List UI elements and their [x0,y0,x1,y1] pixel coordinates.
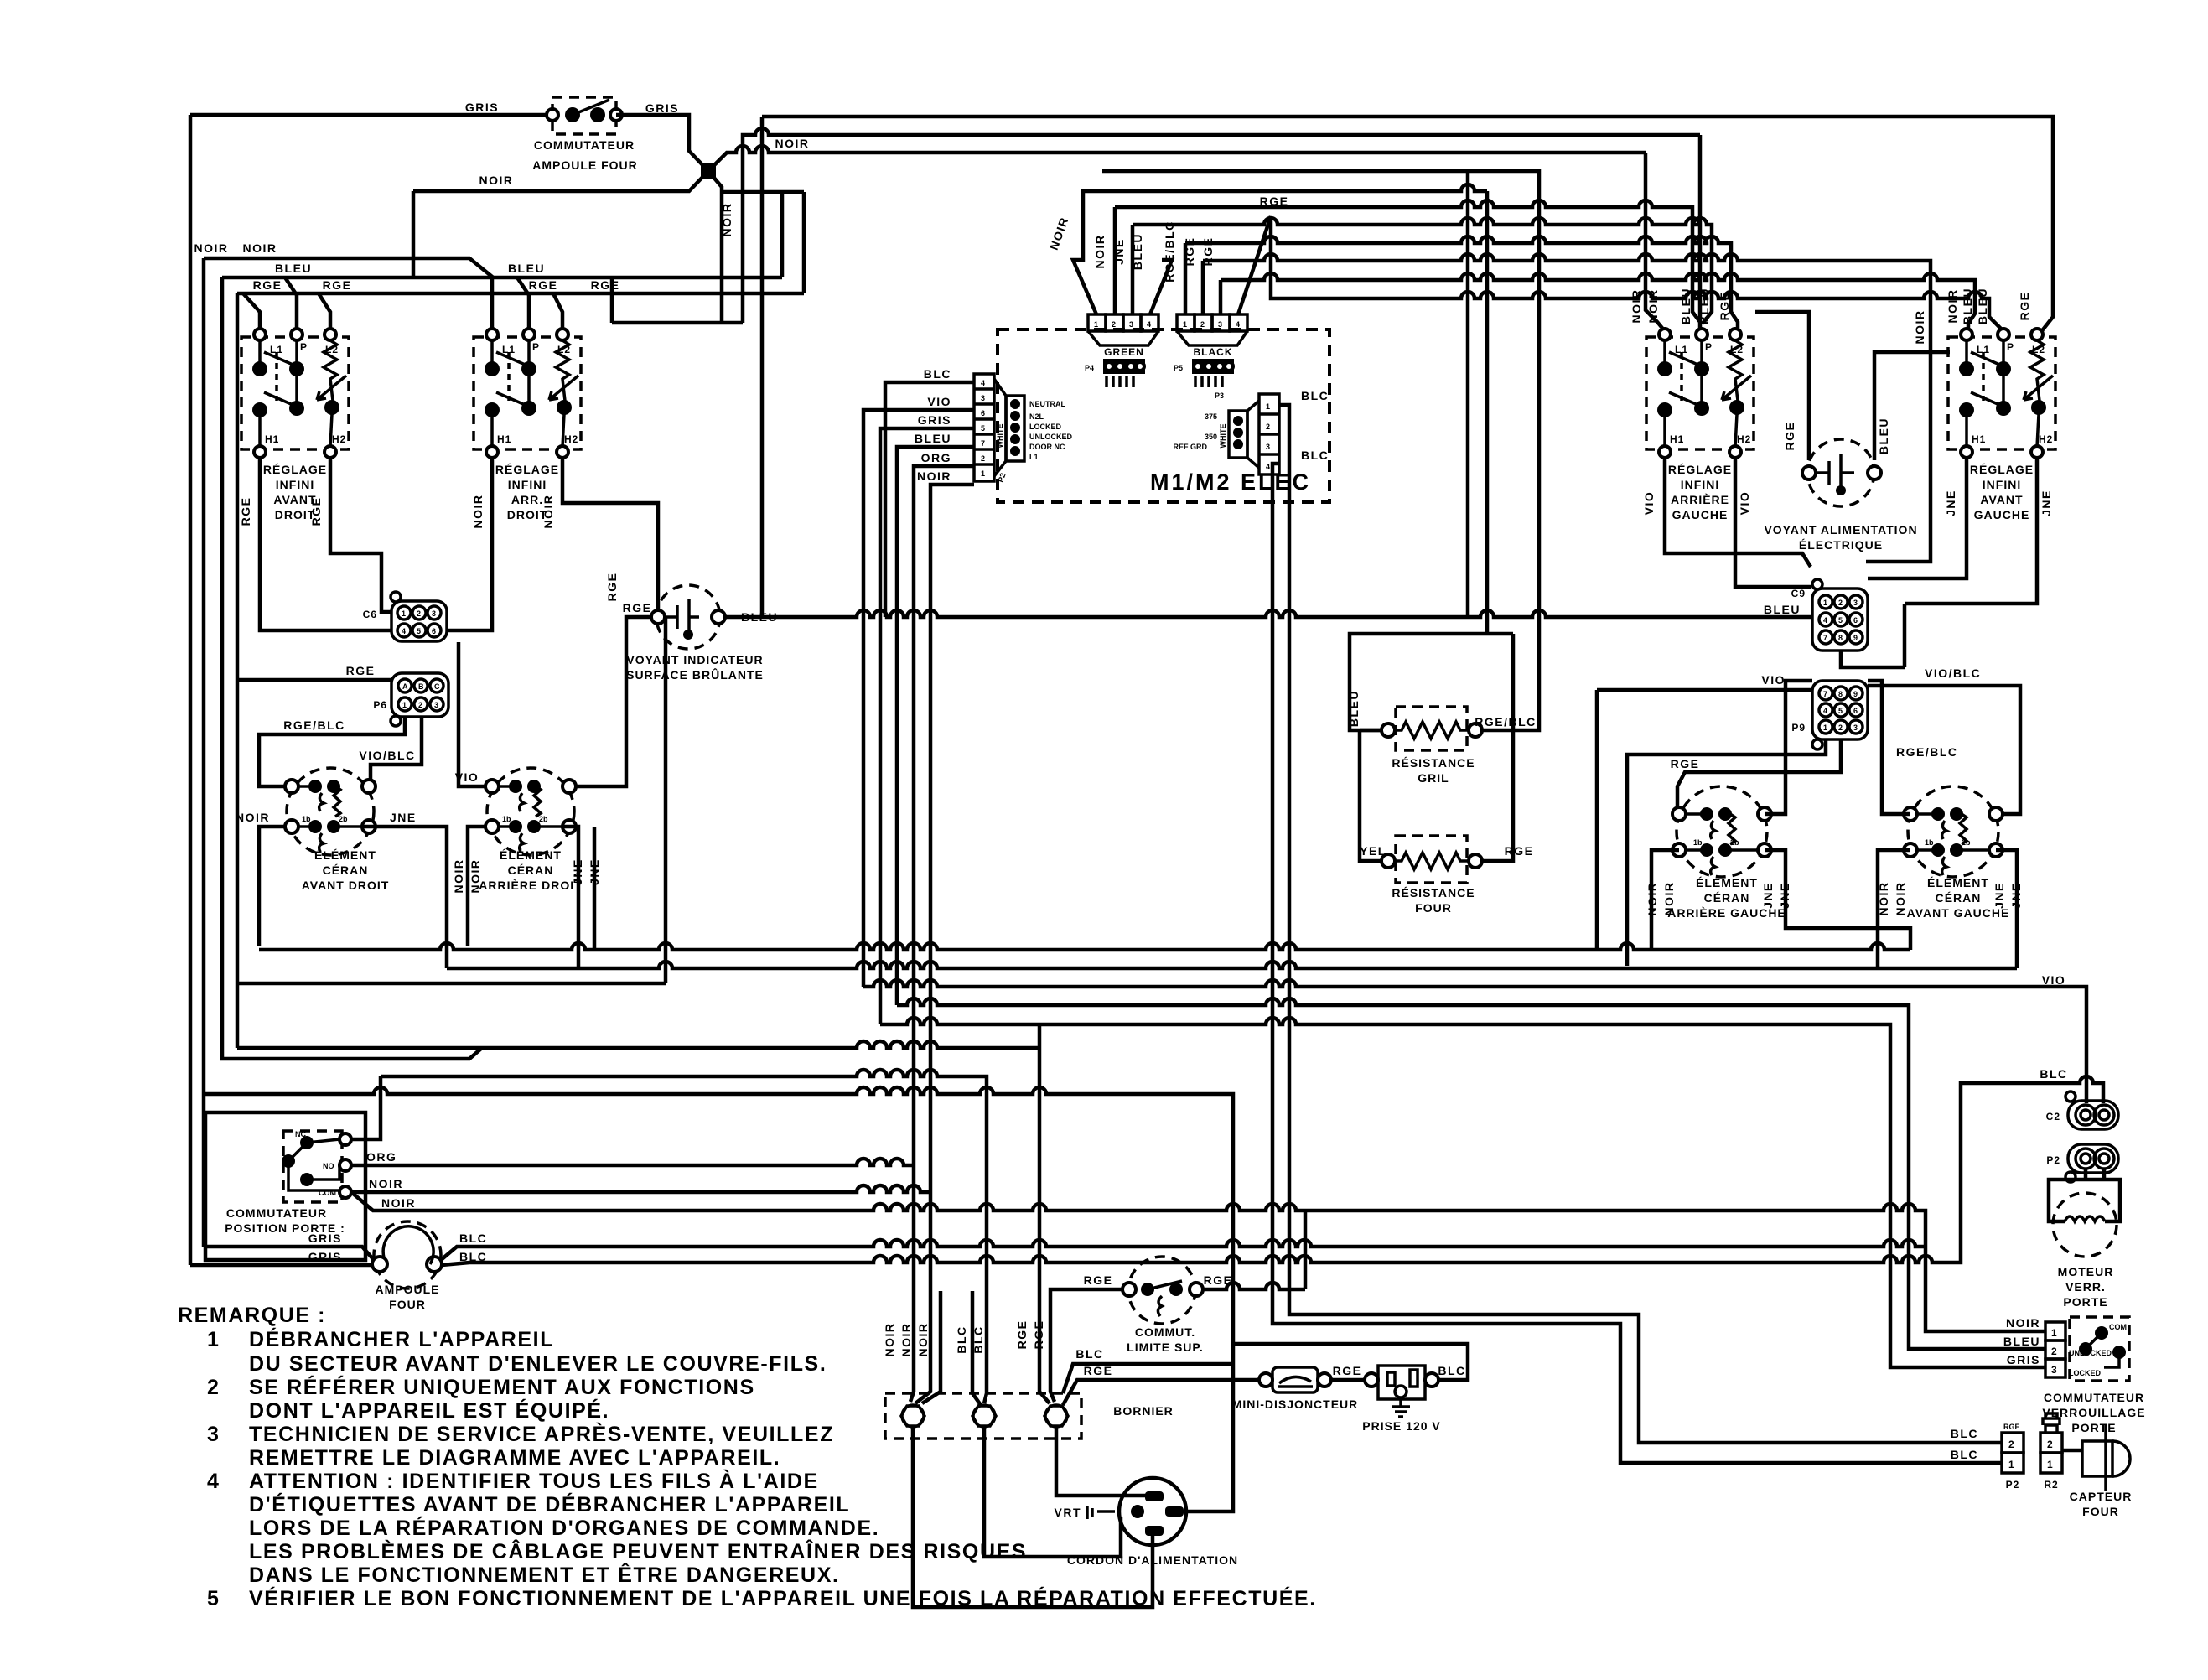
wire vio elem2 [459,642,490,786]
svg-text:P3: P3 [1215,391,1224,400]
connector C6 [363,592,447,641]
svg-text:NEUTRAL: NEUTRAL [1029,400,1065,408]
svg-text:LOCKED: LOCKED [2069,1369,2102,1377]
svg-text:1: 1 [2008,1459,2015,1470]
svg-text:1: 1 [2047,1459,2054,1470]
svg-text:5: 5 [1838,707,1843,715]
svg-text:BLC: BLC [1075,1347,1103,1361]
svg-text:NOIR: NOIR [542,495,555,529]
svg-text:PORTE: PORTE [2071,1421,2116,1434]
svg-text:4: 4 [1147,320,1151,329]
svg-text:RGE: RGE [323,278,352,292]
wire X down-right vertical noir [708,171,804,323]
svg-text:5: 5 [981,424,985,433]
svg-text:2: 2 [981,454,985,463]
svg-text:BLC: BLC [924,367,951,381]
wire bornier hex1 third noir + hex2 second blc stubs [922,1291,981,1405]
svg-text:1b: 1b [302,815,311,823]
svg-text:ÉLÉMENT: ÉLÉMENT [1696,876,1758,889]
svg-text:ARRIÈRE DROIT: ARRIÈRE DROIT [479,879,582,892]
svg-text:2: 2 [418,701,422,709]
svg-text:VIO: VIO [1738,491,1751,516]
svg-text:3: 3 [207,1423,220,1446]
wire bus y247 [1115,200,1700,331]
svg-text:MOTEUR: MOTEUR [2058,1265,2114,1278]
svg-text:375: 375 [1205,412,1217,421]
connector GREEN [1085,314,1158,387]
svg-text:MINI-DISJONCTEUR: MINI-DISJONCTEUR [1232,1397,1359,1411]
svg-text:NOIR: NOIR [1946,289,1959,324]
wire top bus rge [762,117,2053,333]
svg-text:DONT L'APPAREIL EST ÉQUIPÉ.: DONT L'APPAREIL EST ÉQUIPÉ. [249,1398,609,1423]
svg-text:NOIR: NOIR [381,1196,416,1210]
svg-text:6: 6 [432,627,436,635]
svg-text:NOIR: NOIR [452,859,465,894]
svg-text:NOIR: NOIR [369,1177,403,1190]
svg-text:2b: 2b [1962,838,1971,847]
svg-text:1: 1 [1266,402,1270,411]
wire voyant alim leads [1755,312,1950,460]
svg-text:COMMUTATEUR: COMMUTATEUR [2044,1391,2144,1404]
commutateur ampoule four [465,97,679,172]
svg-text:BLEU: BLEU [1976,288,1989,324]
svg-text:9: 9 [1853,690,1858,698]
svg-text:NC: NC [295,1130,306,1138]
wire bus y334 [1221,273,1975,331]
svg-text:P: P [532,341,540,353]
svg-text:NOIR: NOIR [1646,289,1660,324]
wire box1 H2 down to C6 [330,458,391,612]
svg-text:RGE: RGE [2003,1423,2020,1431]
svg-text:P4: P4 [1085,364,1094,372]
svg-text:2: 2 [1266,423,1270,431]
svg-text:BLEU: BLEU [1131,233,1144,270]
wire bus 1180 vio [863,980,2086,1103]
wire rge/blc elem1 [259,718,405,786]
svg-text:JNE: JNE [390,811,417,824]
svg-text:RGE: RGE [529,278,558,292]
svg-text:350: 350 [1205,433,1217,441]
connector P9 [1791,681,1868,749]
svg-text:ARRIÈRE: ARRIÈRE [1671,493,1729,506]
svg-text:NO: NO [323,1162,334,1170]
svg-text:2: 2 [207,1376,220,1399]
svg-text:NOIR: NOIR [720,203,733,237]
wire gauche boxes to C9 [1665,458,1811,567]
wire limite sup leads [1050,1283,1305,1402]
svg-text:P: P [1705,341,1713,353]
svg-text:RGE: RGE [1505,844,1534,858]
svg-text:1: 1 [207,1328,220,1351]
svg-text:RGE/BLC: RGE/BLC [1475,715,1537,729]
svg-text:1: 1 [402,609,406,618]
svg-text:3: 3 [434,701,438,709]
connector C9 [1764,579,1868,651]
wire elem gauche bottoms [1651,850,1679,950]
svg-text:3: 3 [1266,443,1270,451]
svg-text:BLEU: BLEU [2003,1335,2040,1348]
svg-text:FOUR: FOUR [2082,1505,2119,1518]
svg-text:RGE: RGE [1671,757,1700,770]
svg-text:4: 4 [207,1470,220,1493]
svg-text:BLEU: BLEU [1679,288,1692,324]
svg-text:3: 3 [2051,1364,2058,1376]
svg-text:ARR.: ARR. [511,493,543,506]
svg-text:NOIR: NOIR [1894,882,1907,916]
svg-text:LIMITE SUP.: LIMITE SUP. [1127,1340,1204,1354]
svg-text:DÉBRANCHER L'APPAREIL: DÉBRANCHER L'APPAREIL [249,1327,554,1351]
wire bus 1129 [259,943,1910,950]
svg-text:BLEU: BLEU [508,262,545,275]
svg-text:H2: H2 [2039,433,2053,445]
svg-text:BLACK: BLACK [1194,346,1233,358]
svg-text:2b: 2b [539,815,548,823]
svg-text:BLEU: BLEU [1877,417,1890,454]
svg-text:VIO/BLC: VIO/BLC [1925,666,1981,680]
svg-text:FOUR: FOUR [1415,901,1452,915]
svg-text:VRT: VRT [1055,1506,1082,1519]
svg-text:4: 4 [1823,616,1827,625]
svg-text:NOIR: NOIR [899,1323,913,1357]
svg-text:C6: C6 [363,609,377,620]
wire line1173 left [237,617,666,983]
svg-text:YEL: YEL [1360,844,1386,858]
svg-text:COMMUT.: COMMUT. [1135,1325,1195,1339]
svg-text:COMMUTATEUR: COMMUTATEUR [534,138,635,152]
svg-text:2: 2 [1200,320,1205,329]
wire bus y268 [1133,218,1712,324]
wire noir1 [351,1185,930,1192]
svg-text:9: 9 [1853,634,1858,642]
svg-text:RGE: RGE [309,497,323,526]
wire bus 1151 [447,962,2017,968]
wire bus 1284 blc [381,1070,987,1403]
svg-text:3: 3 [1853,599,1858,607]
connector P2 M1M2 left [974,374,1072,484]
svg-text:RGE: RGE [1718,292,1731,321]
wire v2028 [1698,135,1703,322]
svg-text:1b: 1b [502,815,511,823]
svg-text:FOUR: FOUR [389,1298,426,1311]
svg-text:ÉLÉMENT: ÉLÉMENT [1927,876,1989,889]
svg-text:RGE: RGE [605,573,619,602]
wires BLACK top [1185,216,1271,314]
svg-text:1: 1 [1823,723,1827,732]
wire bus y356 [1271,216,2001,331]
svg-text:VIO: VIO [2042,973,2066,987]
wire bus 1250 [237,1024,1050,1403]
svg-text:BORNIER: BORNIER [1113,1404,1174,1418]
wire bleu right segment to second box [793,276,797,280]
svg-text:1: 1 [981,469,985,478]
svg-text:6: 6 [1853,707,1858,715]
svg-text:H1: H1 [265,433,279,445]
svg-text:JNE: JNE [2040,490,2053,516]
wire bus y311 [1203,254,1931,562]
svg-text:RGE: RGE [1084,1273,1113,1287]
svg-text:NOIR: NOIR [236,811,270,824]
svg-text:NOIR: NOIR [243,241,277,255]
svg-text:DANS LE FONCTIONNEMENT ET ÊTRE: DANS LE FONCTIONNEMENT ET ÊTRE DANGEREUX… [249,1562,840,1587]
svg-text:NOIR: NOIR [469,859,482,894]
svg-text:RÉSISTANCE: RÉSISTANCE [1392,756,1475,770]
svg-text:LOCKED: LOCKED [1029,423,1062,431]
wire voyant bleu long [725,610,1812,617]
svg-text:8: 8 [1838,634,1843,642]
svg-text:C9: C9 [1791,588,1806,599]
connector P6 [373,673,448,726]
svg-text:BLC: BLC [1951,1448,1978,1461]
wire noir bus y308 [204,258,492,1247]
svg-text:BLC: BLC [955,1325,968,1353]
svg-text:P9: P9 [1791,722,1806,734]
svg-text:5: 5 [417,627,421,635]
svg-text:GRIS: GRIS [645,101,679,115]
svg-text:P6: P6 [373,699,387,711]
svg-text:GRIS: GRIS [308,1231,342,1245]
wire gris to X [616,115,708,171]
svg-text:REMARQUE :: REMARQUE : [178,1304,326,1327]
wire noir v1963 diag [1646,153,1665,331]
svg-text:D'ÉTIQUETTES AVANT DE DÉBRANCH: D'ÉTIQUETTES AVANT DE DÉBRANCHER L'APPAR… [249,1492,850,1517]
svg-text:RGE: RGE [1084,1364,1113,1377]
svg-text:JNE: JNE [1112,238,1126,265]
svg-text:RGE/BLC: RGE/BLC [1163,220,1176,283]
svg-text:4: 4 [402,627,406,635]
svg-text:PORTE: PORTE [2063,1295,2107,1309]
svg-text:RÉSISTANCE: RÉSISTANCE [1392,886,1475,900]
svg-text:VERR.: VERR. [2065,1280,2106,1294]
svg-text:ATTENTION : IDENTIFIER TOUS LE: ATTENTION : IDENTIFIER TOUS LES FILS À L… [249,1469,819,1493]
svg-text:2b: 2b [1730,838,1739,847]
wires below bornier to cordon [913,1427,1153,1607]
svg-text:3: 3 [1853,723,1858,732]
svg-text:1: 1 [402,701,407,709]
svg-text:2: 2 [2051,1346,2058,1357]
svg-text:CÉRAN: CÉRAN [323,863,369,877]
svg-text:L1: L1 [1029,453,1039,461]
wire nc to bus1284 [351,1076,381,1139]
svg-text:BLEU: BLEU [915,432,951,445]
svg-text:RGE: RGE [1032,1320,1045,1350]
wire cordon right pin up [1184,1364,1233,1511]
svg-text:4: 4 [1236,320,1240,329]
svg-text:AVANT DROIT: AVANT DROIT [302,879,390,892]
svg-text:COMMUTATEUR: COMMUTATEUR [226,1206,327,1220]
svg-text:GREEN: GREEN [1104,346,1144,358]
svg-text:RGE: RGE [346,664,376,677]
svg-text:2: 2 [1112,320,1116,329]
wire rge elem2 to voyant [571,617,652,786]
wire top border / gris feed [190,113,549,117]
svg-text:INFINI: INFINI [276,478,314,491]
svg-text:VOYANT ALIMENTATION: VOYANT ALIMENTATION [1764,523,1917,537]
svg-text:GRIS: GRIS [2007,1353,2040,1366]
svg-text:NOIR: NOIR [775,137,810,150]
svg-text:NOIR: NOIR [1093,235,1107,269]
wire rge bus y350 [237,293,804,1048]
svg-text:VIO: VIO [1761,673,1786,687]
svg-text:PRISE 120 V: PRISE 120 V [1362,1419,1441,1433]
svg-text:VIO: VIO [1642,491,1656,516]
svg-text:RGE: RGE [623,601,652,614]
svg-text:3: 3 [1129,320,1133,329]
svg-text:H1: H1 [497,433,511,445]
svg-text:BLC: BLC [1301,389,1329,402]
moteur verr porte [2049,1169,2120,1309]
wire elem bottoms to buses [259,827,447,968]
wire bus 1203 [897,998,2045,1349]
svg-text:M1/M2 ELEC: M1/M2 ELEC [1150,469,1311,495]
svg-text:H2: H2 [564,433,578,445]
svg-text:BLEU: BLEU [275,262,312,275]
svg-text:CAPTEUR: CAPTEUR [2070,1490,2133,1503]
wire gris wires [190,1247,374,1265]
svg-text:6: 6 [1853,616,1858,625]
wire disjoncteur to prise [1331,1378,1365,1382]
svg-text:CÉRAN: CÉRAN [1704,891,1750,905]
svg-text:RGE/BLC: RGE/BLC [283,718,345,732]
svg-text:A: A [402,682,408,691]
svg-text:VIO/BLC: VIO/BLC [359,749,415,762]
wire vio/blc elem1 [371,718,422,786]
svg-text:NOIR: NOIR [2006,1316,2040,1330]
svg-text:REMETTRE LE DIAGRAMME AVEC L'A: REMETTRE LE DIAGRAMME AVEC L'APPAREIL. [249,1446,780,1470]
svg-text:UNLOCKED: UNLOCKED [2069,1349,2112,1357]
svg-text:NOIR: NOIR [916,1323,930,1357]
svg-text:1b: 1b [1693,838,1703,847]
svg-text:JNE: JNE [1944,490,1957,516]
svg-text:WHITE: WHITE [1219,424,1227,449]
svg-text:RGE: RGE [2018,292,2031,321]
svg-text:ÉLÉMENT: ÉLÉMENT [500,848,562,862]
wire X up-right to bus [708,146,1646,171]
node X junction [701,163,716,179]
svg-text:H1: H1 [1670,433,1684,445]
wire X down-left noir [413,171,708,191]
svg-text:CORDON D'ALIMENTATION: CORDON D'ALIMENTATION [1067,1553,1238,1567]
svg-text:RGE: RGE [253,278,282,292]
svg-text:P2: P2 [2046,1154,2060,1166]
svg-text:5: 5 [1838,616,1843,625]
svg-text:7: 7 [1823,690,1827,698]
svg-text:RGE/BLC: RGE/BLC [1896,745,1958,759]
wire box2 H2 to voyant [562,458,658,611]
svg-text:1b: 1b [1925,838,1934,847]
svg-text:GRIS: GRIS [308,1250,342,1263]
svg-text:JNE: JNE [1993,882,2006,909]
svg-text:2: 2 [1838,723,1843,732]
svg-text:GAUCHE: GAUCHE [1974,508,2030,521]
svg-text:SE RÉFÉRER UNIQUEMENT AUX FONC: SE RÉFÉRER UNIQUEMENT AUX FONCTIONS [249,1375,755,1399]
svg-text:GAUCHE: GAUCHE [1672,508,1729,521]
svg-text:RÉGLAGE: RÉGLAGE [263,463,327,476]
svg-text:INFINI: INFINI [1681,478,1719,491]
svg-text:ÉLECTRIQUE: ÉLECTRIQUE [1799,538,1883,552]
svg-text:VIO: VIO [927,395,951,408]
wire rge to P6 [237,678,391,682]
svg-text:H2: H2 [332,433,346,445]
svg-text:2: 2 [2008,1439,2015,1450]
svg-text:6: 6 [981,409,985,417]
wire v909 [760,117,765,617]
svg-text:VÉRIFIER LE BON FONCTIONNEMENT: VÉRIFIER LE BON FONCTIONNEMENT DE L'APPA… [249,1586,1317,1610]
svg-text:BLC: BLC [1438,1364,1465,1377]
svg-text:P2: P2 [2006,1479,2020,1491]
svg-text:2: 2 [2047,1439,2054,1450]
svg-text:4: 4 [1266,463,1270,471]
wire v1557 [1304,1211,1308,1289]
svg-text:COM: COM [319,1189,336,1197]
connector C2 [2046,1091,2118,1129]
svg-text:NOIR: NOIR [917,469,951,483]
svg-text:BLC: BLC [2040,1067,2067,1081]
svg-text:DOOR NC: DOOR NC [1029,443,1065,451]
svg-text:NOIR: NOIR [883,1323,896,1357]
svg-text:CÉRAN: CÉRAN [1936,891,1982,905]
svg-text:2b: 2b [339,815,348,823]
svg-text:NOIR: NOIR [1630,289,1643,324]
svg-text:RÉGLAGE: RÉGLAGE [495,463,559,476]
svg-text:2: 2 [1838,599,1843,607]
svg-text:2: 2 [417,609,421,618]
wire vio/blc from P9 [1868,686,2020,814]
svg-text:P5: P5 [1174,364,1183,372]
svg-text:NOIR: NOIR [194,241,229,255]
svg-text:GRIS: GRIS [465,101,499,114]
wire org [351,1159,914,1165]
svg-text:RÉGLAGE: RÉGLAGE [1668,463,1732,476]
svg-text:C: C [434,682,440,691]
svg-text:LES PROBLÈMES DE CÂBLAGE PEUVE: LES PROBLÈMES DE CÂBLAGE PEUVENT ENTRAÎN… [249,1538,1027,1563]
svg-text:H1: H1 [1972,433,1986,445]
svg-text:P: P [300,341,308,353]
wire left border vertical [189,115,193,1265]
svg-text:P: P [2007,341,2014,353]
svg-text:7: 7 [981,439,985,448]
svg-text:3: 3 [432,609,436,618]
svg-text:3: 3 [1218,320,1222,329]
wire box1 H1 down to C6 [260,458,391,630]
wire blc wires from ampoule [441,1240,1926,1260]
connector P2 moteur [2046,1144,2118,1182]
svg-text:ÉLÉMENT: ÉLÉMENT [314,848,376,862]
svg-text:REF GRD: REF GRD [1174,443,1208,451]
wires M1M2 right [1279,405,2002,1443]
svg-text:GRIL: GRIL [1418,771,1449,785]
wire vio to P9 [1597,690,1812,950]
svg-text:N2L: N2L [1029,412,1044,421]
svg-text:4: 4 [981,379,985,387]
svg-text:4: 4 [1823,707,1827,715]
svg-text:RGE: RGE [591,278,620,292]
svg-text:RGE: RGE [239,497,252,526]
svg-text:COM: COM [2109,1323,2127,1331]
svg-text:C2: C2 [2046,1111,2060,1123]
svg-text:ORG: ORG [921,451,951,464]
wires into P2 stack [885,382,974,617]
svg-text:UNLOCKED: UNLOCKED [1029,433,1072,441]
wire stub y385 [612,128,1700,323]
svg-text:INFINI: INFINI [508,478,547,491]
svg-text:BLEU: BLEU [1697,288,1711,324]
wire bus 1305 [204,1087,1233,1364]
svg-text:3: 3 [981,394,985,402]
svg-text:H2: H2 [1737,433,1751,445]
svg-text:NOIR: NOIR [1913,310,1926,345]
svg-text:1: 1 [1183,320,1187,329]
wire elem gauche tops [1765,681,1812,814]
